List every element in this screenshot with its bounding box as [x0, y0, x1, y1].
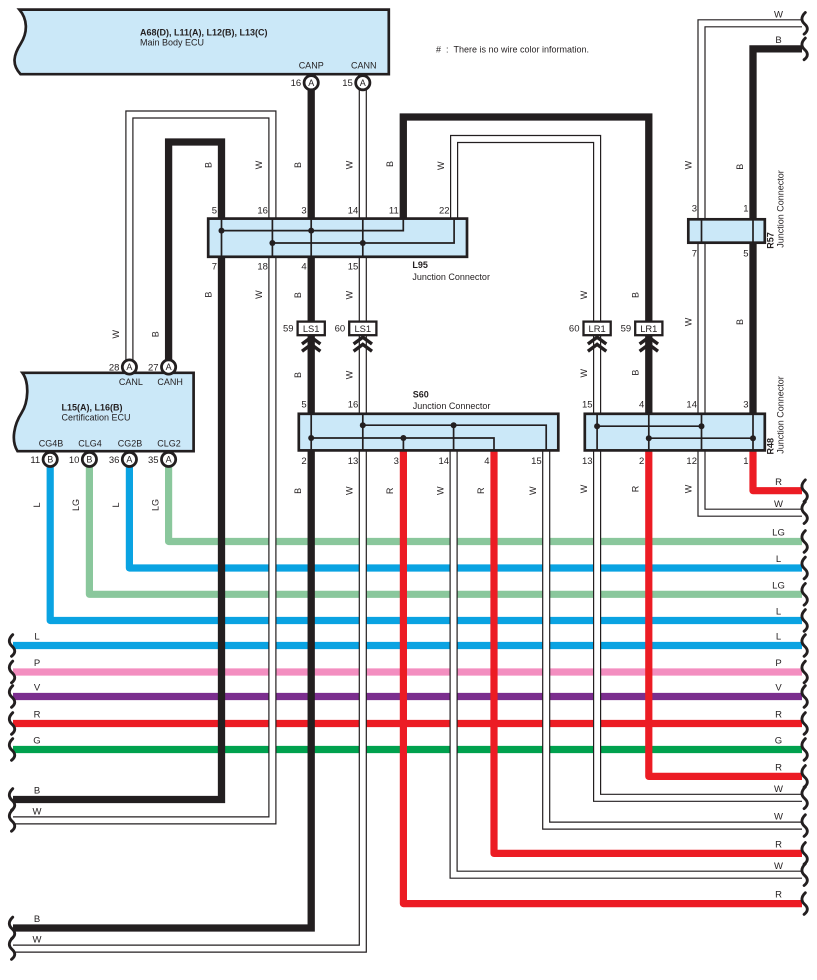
svg-text:27: 27	[148, 362, 159, 373]
wire G green (left edge to right edge)	[13, 746, 802, 753]
svg-text:W: W	[774, 499, 783, 510]
svg-text:A: A	[166, 455, 172, 465]
S60 internal wire pin 3	[402, 438, 404, 452]
L95 junction dot pin 16	[269, 240, 275, 246]
svg-text:W: W	[683, 160, 693, 169]
wire R R48 pin 1 down to right edge	[753, 448, 802, 491]
svg-text:LR1: LR1	[640, 323, 657, 334]
svg-text:2: 2	[639, 456, 644, 467]
left edge wire labels	[33, 632, 42, 946]
R48 internal bus pins 15-14	[597, 425, 701, 427]
svg-text:W: W	[33, 807, 42, 818]
svg-text:P: P	[34, 658, 40, 669]
Certification ECU pin 35 circle A	[148, 452, 176, 466]
svg-text:L15(A), L16(B): L15(A), L16(B)	[62, 403, 123, 413]
svg-text:B: B	[631, 370, 641, 376]
svg-text:B: B	[34, 786, 40, 797]
right edge wire labels	[772, 9, 785, 900]
wire W L95 pin 22 loop through 60-LR1 and R48 pins 15/13 to right edge	[454, 139, 802, 798]
svg-text:15: 15	[582, 400, 593, 411]
svg-text:W: W	[254, 290, 264, 299]
svg-text:S60: S60	[413, 389, 429, 399]
Certification ECU CANL label	[119, 377, 143, 387]
svg-text:W: W	[435, 486, 445, 495]
note about wire color	[436, 45, 589, 55]
R48 internal wire pin 15-13	[596, 413, 598, 452]
svg-text:B: B	[775, 35, 781, 46]
wire W CANL loop (Certification ECU CANL pin 28 up over L95 pins 16/18 down to left edge)	[13, 115, 272, 821]
svg-text:4: 4	[484, 456, 489, 467]
svg-text:P: P	[775, 658, 781, 669]
svg-text:LG: LG	[772, 580, 785, 591]
svg-text:Junction Connector: Junction Connector	[413, 401, 491, 411]
svg-text:1: 1	[743, 204, 748, 215]
left edge break marks	[9, 635, 14, 960]
svg-text:A: A	[166, 362, 172, 372]
svg-text:R48: R48	[765, 438, 775, 455]
Certification ECU CLG2 label	[157, 438, 181, 448]
svg-text:A: A	[126, 455, 132, 465]
svg-text:W: W	[345, 160, 355, 169]
wire P pink (left edge to right edge)	[13, 668, 802, 675]
Certification ECU pin 28 circle A	[109, 360, 137, 374]
svg-text:11: 11	[30, 455, 40, 466]
right edge break marks	[802, 13, 807, 915]
Main Body ECU CANN label	[351, 60, 377, 70]
svg-text:15: 15	[531, 456, 542, 467]
svg-text:G: G	[775, 736, 782, 747]
R48 bottom pin numbers 13 2 12 1	[582, 456, 748, 467]
svg-text:R57: R57	[765, 232, 775, 249]
marker 60 LR1 on white wire to R48 pin 15	[569, 322, 611, 352]
svg-text:A: A	[126, 362, 132, 372]
L95 internal wire pin 3-4	[310, 218, 312, 257]
L95 internal wire pin 5-7	[221, 218, 223, 257]
L95 junction dot pin 14	[360, 240, 366, 246]
wire B top right edge through R57 pins 1/5 to R48 pin 3	[753, 49, 802, 414]
S60 internal bus to pin 4	[311, 438, 494, 452]
svg-text:CANN: CANN	[351, 60, 377, 70]
svg-text:5: 5	[301, 400, 306, 411]
svg-text:W: W	[345, 486, 355, 495]
Main Body ECU title	[140, 28, 268, 48]
svg-text:Junction Connector: Junction Connector	[412, 272, 490, 282]
svg-text:V: V	[34, 683, 41, 694]
Certification ECU CG2B label	[118, 438, 143, 448]
svg-text:28: 28	[109, 362, 120, 373]
R48 junction dot pin 3	[750, 435, 756, 441]
svg-text:CANH: CANH	[157, 377, 183, 387]
svg-text:B: B	[203, 162, 213, 168]
wire W S60 pin 15 down to right edge	[546, 448, 802, 826]
R57 internal wire pin 1-5	[752, 219, 754, 244]
svg-text:4: 4	[639, 400, 644, 411]
R48 internal bus pins 4-3	[649, 437, 753, 439]
R48 top pin numbers 15 4 14 3	[582, 400, 748, 411]
svg-text:15: 15	[348, 262, 359, 273]
svg-text:CG2B: CG2B	[118, 438, 143, 448]
wire B CANH loop (Certification ECU CANH pin 27 up over L95 pins 5/7 down to left edge)	[13, 142, 222, 800]
svg-text:W: W	[774, 784, 783, 795]
svg-text:B: B	[631, 292, 641, 298]
svg-text:W: W	[774, 9, 783, 20]
svg-text:4: 4	[301, 262, 306, 273]
S60 internal bus to pin 15	[363, 425, 546, 451]
R48 junction dot pin 4	[646, 435, 652, 441]
svg-text:Junction Connector: Junction Connector	[775, 170, 785, 248]
svg-text:V: V	[775, 683, 782, 694]
svg-text:22: 22	[439, 206, 450, 217]
svg-text:W: W	[683, 484, 693, 493]
svg-text:R: R	[775, 477, 782, 488]
svg-text:5: 5	[743, 249, 748, 260]
R57 title	[765, 170, 785, 249]
svg-text:12: 12	[686, 456, 697, 467]
S60 top pin numbers 5 16	[301, 400, 358, 411]
R48 junction dot pin 14	[699, 423, 705, 429]
svg-text:14: 14	[686, 400, 697, 411]
svg-text:B: B	[34, 914, 40, 925]
svg-text:14: 14	[348, 206, 359, 217]
Certification ECU CLG4 label	[78, 438, 102, 448]
L95 title	[412, 260, 490, 282]
L95 internal wire pin 14-15	[362, 218, 364, 257]
Certification ECU CANH label	[157, 377, 183, 387]
svg-text:16: 16	[257, 206, 268, 217]
svg-text:W: W	[528, 486, 538, 495]
wire L blue (left edge to right edge)	[13, 642, 802, 649]
svg-text:Certification ECU: Certification ECU	[62, 413, 131, 423]
wire V violet (left edge to right edge)	[13, 693, 802, 700]
wire W CANN (Main Body ECU pin 15 through L95 14/15, S60 16/13 to left edge)	[13, 90, 363, 949]
svg-text:60: 60	[335, 324, 346, 335]
S60 internal wire pin 16-13	[362, 413, 364, 452]
svg-text:B: B	[203, 292, 213, 298]
svg-text:LG: LG	[71, 499, 81, 511]
svg-text:13: 13	[348, 456, 359, 467]
svg-text:B: B	[385, 161, 395, 167]
svg-text:B: B	[293, 162, 303, 168]
svg-text:16: 16	[348, 400, 359, 411]
svg-text:L: L	[776, 554, 781, 565]
Main Body ECU pin 15 circle A	[342, 76, 370, 90]
svg-text:L: L	[776, 607, 781, 618]
svg-text:1: 1	[743, 456, 748, 467]
R57 internal wire pin 3-7	[701, 219, 703, 244]
svg-text:CANP: CANP	[299, 60, 324, 70]
svg-text:Main Body ECU: Main Body ECU	[140, 38, 204, 48]
wire B L95 pin 11 loop through 59-LR1 to R48 pin 4	[403, 117, 649, 414]
svg-text:L: L	[34, 632, 39, 643]
wire R S60 pin 4 down to right edge	[494, 448, 802, 853]
marker 60 LS1 on CANN wire	[335, 322, 377, 352]
svg-text:LS1: LS1	[354, 323, 371, 334]
Certification ECU pin 27 circle A	[148, 360, 176, 374]
svg-text:R: R	[476, 487, 486, 494]
marker 59 LR1 on black wire to R48 pin 4	[621, 322, 663, 352]
svg-text:G: G	[33, 736, 40, 747]
S60 junction dot pin 16	[360, 422, 366, 428]
svg-text:CG4B: CG4B	[39, 438, 64, 448]
svg-text:LR1: LR1	[588, 323, 605, 334]
svg-text:R: R	[34, 710, 41, 721]
svg-text:LG: LG	[150, 499, 160, 511]
svg-text:W: W	[436, 161, 446, 170]
svg-text:B: B	[293, 488, 303, 494]
svg-text:R: R	[385, 487, 395, 494]
marker 59 LS1 on CANP wire	[283, 322, 325, 352]
S60 junction dot pin 3	[400, 435, 406, 441]
S60 title	[413, 389, 491, 411]
svg-text:W: W	[683, 317, 693, 326]
wire W S60 pin 14 down to right edge	[454, 448, 802, 875]
svg-text:5: 5	[212, 206, 217, 217]
svg-text:Junction Connector: Junction Connector	[775, 376, 785, 454]
svg-text:W: W	[254, 160, 264, 169]
R48 internal wire pin 3-1	[752, 413, 754, 452]
svg-text:3: 3	[692, 204, 697, 215]
svg-text:36: 36	[109, 455, 120, 466]
svg-text:CLG4: CLG4	[78, 438, 102, 448]
L95 internal bus to pin 22	[272, 218, 454, 243]
wire B CANP (Main Body ECU pin 16 through L95 3/4, 59-LS1, S60 5/2 to left edge)	[13, 90, 311, 929]
svg-text:W: W	[33, 935, 42, 946]
L95 top pin numbers 5 16 3 14 11 22	[212, 206, 450, 217]
svg-text:13: 13	[582, 456, 593, 467]
svg-text:A: A	[308, 78, 314, 88]
svg-text:2: 2	[301, 456, 306, 467]
svg-text:11: 11	[389, 206, 399, 217]
svg-text:7: 7	[692, 249, 697, 260]
Main Body ECU pin 16 circle A	[291, 76, 319, 90]
svg-text:W: W	[579, 290, 589, 299]
svg-text:R: R	[631, 485, 641, 492]
L95 junction dot pin 3	[308, 228, 314, 234]
R48 internal wire pin 4-2	[648, 413, 650, 452]
svg-text:CLG2: CLG2	[157, 438, 181, 448]
svg-text:B: B	[735, 319, 745, 325]
wire CLG4 light-green (Certification ECU pin 10 to right edge)	[89, 466, 802, 594]
R48 junction dot pin 15	[594, 423, 600, 429]
L95 bottom pin numbers 7 18 4 15	[212, 262, 359, 273]
svg-text:L: L	[111, 502, 121, 507]
L95 junction dot pin 5	[219, 228, 225, 234]
svg-text:10: 10	[69, 455, 80, 466]
Certification ECU pin 36 circle A	[109, 452, 137, 466]
L95 internal wire pin 16-18	[271, 218, 273, 257]
svg-text:L: L	[32, 502, 42, 507]
svg-text:A: A	[360, 78, 366, 88]
svg-text:B: B	[293, 372, 303, 378]
R57 bottom pin numbers 7 5	[692, 249, 749, 260]
svg-text:R: R	[775, 763, 782, 774]
svg-text:W: W	[345, 370, 355, 379]
wire R R48 pin 2 down to right edge	[649, 448, 802, 776]
wire CLG2 light-green (Certification ECU pin 35 to right edge)	[169, 466, 802, 542]
Main Body ECU CANP label	[299, 60, 324, 70]
svg-text:18: 18	[257, 262, 268, 273]
wire R red (left edge to right edge)	[13, 720, 802, 727]
svg-text:3: 3	[301, 206, 306, 217]
svg-text:A68(D), L11(A), L12(B), L13(C): A68(D), L11(A), L12(B), L13(C)	[140, 28, 268, 38]
svg-text:59: 59	[283, 324, 294, 335]
svg-text:W: W	[579, 368, 589, 377]
Certification ECU CG4B label	[39, 438, 64, 448]
wire W top right edge through R57 pins 3/7 and R48 pins 14/12 back to right edge	[702, 23, 803, 512]
svg-text:59: 59	[621, 324, 632, 335]
Main Body ECU box	[15, 10, 389, 75]
svg-text:B: B	[150, 331, 160, 337]
svg-text:R: R	[775, 710, 782, 721]
svg-text:3: 3	[394, 456, 399, 467]
rotated wire color labels	[32, 160, 745, 511]
svg-text:LG: LG	[772, 528, 785, 539]
svg-text:W: W	[111, 329, 121, 338]
svg-text:7: 7	[212, 262, 217, 273]
svg-text:# : There is no wire color i: # : There is no wire color information.	[436, 45, 589, 55]
junction connector R48 box	[585, 414, 765, 451]
Certification ECU title	[62, 403, 131, 423]
svg-text:B: B	[293, 292, 303, 298]
junction connector L95 box	[208, 219, 467, 257]
Certification ECU pin 11 circle B	[30, 452, 57, 466]
wire CG2B blue (Certification ECU pin 36 to right edge)	[129, 466, 802, 568]
wire R S60 pin 3 down to right edge	[403, 448, 802, 904]
svg-text:W: W	[579, 484, 589, 493]
svg-text:B: B	[735, 164, 745, 170]
svg-text:B: B	[86, 455, 92, 465]
R48 title	[765, 376, 785, 454]
L95 internal bus to pin 11	[222, 218, 404, 231]
S60 bottom pin numbers 2 13 3 14 4 15	[301, 456, 541, 467]
svg-text:L95: L95	[412, 260, 428, 270]
wire CG4B blue (Certification ECU pin 11 to right edge)	[50, 466, 802, 621]
junction connector R57 box	[688, 219, 765, 242]
S60 junction dot pin 5	[308, 435, 314, 441]
svg-text:LS1: LS1	[303, 323, 320, 334]
svg-text:W: W	[774, 861, 783, 872]
svg-text:L: L	[776, 632, 781, 643]
R57 top pin numbers 3 1	[692, 204, 749, 215]
S60 junction dot pin 14	[451, 422, 457, 428]
svg-text:14: 14	[439, 456, 450, 467]
svg-text:CANL: CANL	[119, 377, 143, 387]
Certification ECU pin 10 circle B	[69, 452, 97, 466]
S60 internal wire pin 5-2	[310, 413, 312, 452]
svg-text:R: R	[775, 890, 782, 901]
svg-text:15: 15	[342, 78, 353, 89]
svg-text:60: 60	[569, 324, 580, 335]
S60 internal wire pin 14	[453, 425, 455, 451]
svg-text:35: 35	[148, 455, 159, 466]
R48 internal wire pin 14-12	[701, 413, 703, 452]
svg-text:3: 3	[743, 400, 748, 411]
Certification ECU box	[14, 373, 194, 451]
svg-text:W: W	[774, 812, 783, 823]
svg-text:R: R	[775, 840, 782, 851]
junction connector S60 box	[299, 414, 559, 451]
svg-text:W: W	[345, 290, 355, 299]
svg-text:B: B	[47, 455, 53, 465]
svg-text:16: 16	[291, 78, 302, 89]
